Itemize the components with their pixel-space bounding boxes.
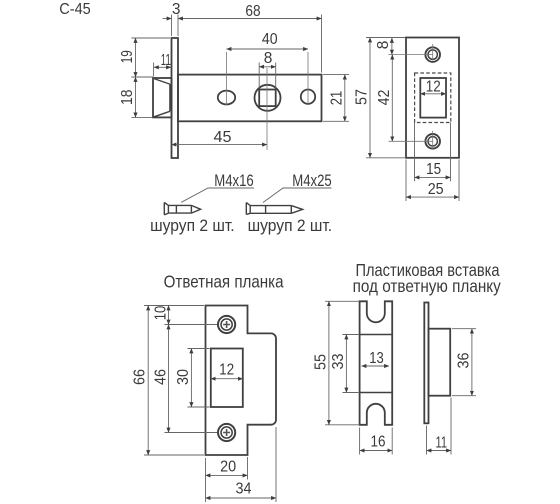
dim 15 extension lines [415,123,451,182]
screw 2 M4x25 head [246,203,250,215]
strike opening [211,349,243,408]
dim 8 (faceplate) line [391,38,393,55]
svg-text:30: 30 [175,369,192,385]
dim 11 extension lines [427,398,452,455]
dim 16 line [360,450,393,452]
svg-text:34: 34 [236,481,252,498]
dim 19 extension lines [131,38,170,117]
svg-text:33: 33 [330,354,347,370]
svg-text:13: 13 [369,350,384,367]
dim 33 extension lines [343,335,359,393]
svg-text:M4x25: M4x25 [292,172,332,190]
bottom screw hole outer [425,134,440,149]
dim 20 line [206,474,248,476]
screw 1 shaft [168,205,191,213]
svg-text:57: 57 [354,89,371,105]
svg-text:46: 46 [152,369,169,385]
screw 2 tip [291,206,302,214]
dim 36 extension lines [452,329,476,396]
svg-text:15: 15 [426,161,441,178]
dim 12 line [420,93,446,95]
centerline through oval hole [226,52,228,106]
svg-text:M4x16: M4x16 [214,172,254,190]
dim 46 line [168,325,170,433]
dashed latch opening [415,73,451,123]
dim 11 line [154,66,171,68]
dim 18 line [135,77,137,117]
svg-text:66: 66 [132,369,149,385]
svg-text:21: 21 [328,91,345,106]
dim 25 line [406,196,459,198]
strike bottom hole cross [223,429,230,436]
dim 10 line [168,306,170,325]
top screw hole inner [428,50,437,59]
inner latch opening [420,78,446,118]
svg-text:55: 55 [312,354,329,370]
dim 25 extension lines [406,160,459,202]
bottom hole centerlines [389,131,433,149]
centerline through right hole [307,52,309,105]
leader M4x16 [181,188,254,202]
svg-text:11: 11 [436,435,448,452]
dim 3 outside arrow [163,18,172,20]
dim 33 line [345,335,347,393]
svg-text:3: 3 [172,1,181,18]
screw 1 M4x16 head [164,202,168,215]
faceplate outline [406,38,459,158]
dim 16 extension lines [360,428,393,455]
svg-text:8: 8 [375,41,392,50]
screw 2 shaft [250,206,291,214]
strike top hole cross [223,321,230,328]
svg-text:C-45: C-45 [59,1,91,18]
svg-text:16: 16 [371,434,386,451]
dim 57 line [369,38,371,158]
dim 11 line [427,450,452,452]
extension lines top dims [172,15,322,73]
dim 55 line [328,301,330,425]
bolt bevel lines [154,79,170,117]
dim 8 extension lines [259,63,276,89]
svg-text:19: 19 [119,50,136,63]
svg-text:12: 12 [426,78,441,95]
oval hole [218,91,235,105]
svg-text:11: 11 [161,52,171,69]
dim 45 line [172,144,268,146]
dim 57 extension lines [366,38,405,158]
dim 20 extension lines [206,457,248,502]
dim 19 line [135,38,137,77]
dim 66 line [147,306,149,456]
dim 21 line [344,75,346,122]
dim 8 line [259,66,276,68]
dim 55 extension lines [325,301,359,425]
centerline through square hole [266,68,268,150]
strike bottom screw hole [218,424,235,441]
strike top screw hole [218,316,235,333]
svg-text:42: 42 [376,90,393,106]
leader M4x25 [263,188,332,203]
svg-text:8: 8 [264,50,273,67]
top hole centerlines [389,44,433,61]
dim 40 line [227,48,309,50]
svg-text:20: 20 [220,459,236,476]
svg-text:25: 25 [428,181,444,198]
bottom screw hole inner [428,137,437,146]
insert front view outline [360,301,393,425]
svg-text:18: 18 [119,89,136,105]
insert band lines [360,335,393,393]
dim 42 line [391,55,393,142]
square spindle hole [259,90,276,107]
svg-text:45: 45 [214,129,232,146]
svg-text:40: 40 [262,31,278,48]
insert side view body block [429,329,451,396]
dim 13 line [362,365,390,367]
dim 15 line [415,176,451,178]
dim 30 line [190,349,192,408]
dim 34 extension line right [275,427,277,502]
dim 68 line [178,18,322,20]
svg-text:Ответная планка: Ответная планка [164,272,284,292]
insert side view thin plate [424,303,428,424]
spindle circle [255,85,281,111]
svg-text:68: 68 [245,3,260,20]
dim 11 extension line [153,63,155,77]
dim 21 extension lines [323,75,349,122]
screw 1 tip [191,205,200,213]
latch body tube [178,75,322,122]
svg-text:шуруп 2 шт.: шуруп 2 шт. [248,217,333,235]
strike plate outline [206,306,277,456]
svg-text:шуруп 2 шт.: шуруп 2 шт. [150,217,235,235]
round hole right [301,90,315,104]
svg-text:10: 10 [152,305,169,320]
latch faceplate (edge view) [172,38,179,158]
top screw hole outer [425,47,440,62]
dim 34 line [206,497,277,499]
latch bolt [153,78,172,117]
svg-text:под ответную планку: под ответную планку [353,276,501,296]
svg-text:36: 36 [455,353,472,369]
svg-text:12: 12 [219,362,234,379]
dim 36 line [471,329,473,396]
strike extension lines left [144,306,217,456]
dim 12 strike line [211,378,243,380]
